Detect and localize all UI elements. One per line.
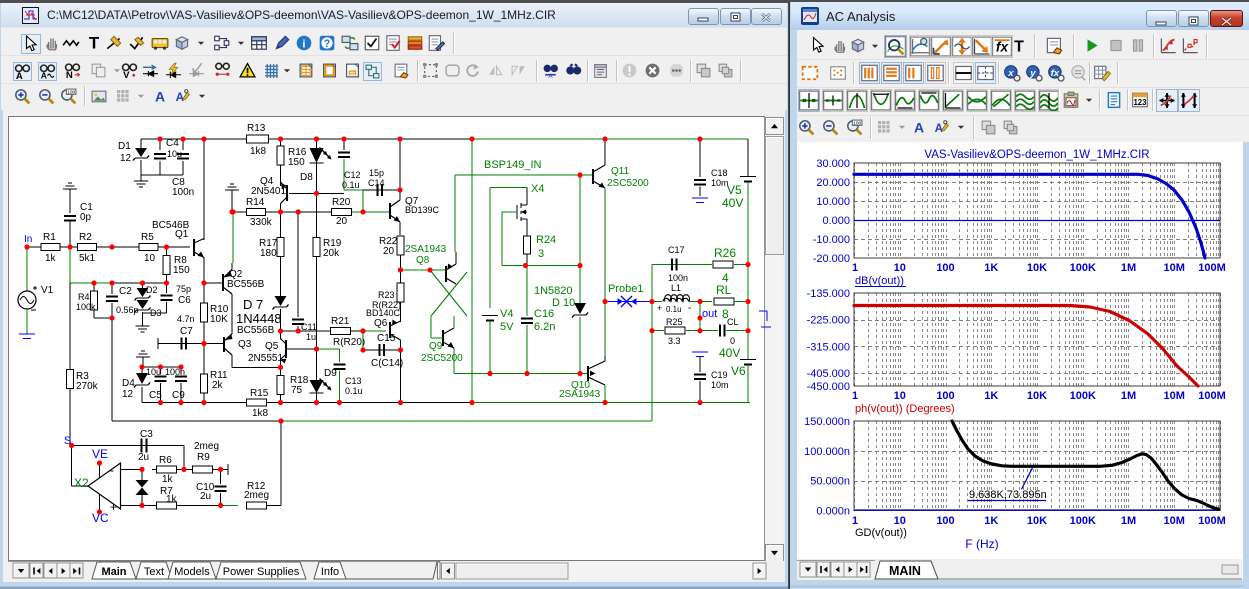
svg-text:1k: 1k	[162, 474, 174, 485]
svg-text:R24: R24	[536, 234, 556, 246]
svg-text:100: 100	[936, 390, 954, 402]
svg-text:40V: 40V	[722, 196, 743, 210]
svg-text:2u: 2u	[200, 491, 211, 502]
svg-text:D8: D8	[300, 172, 313, 183]
svg-text:A: A	[41, 70, 47, 80]
svg-text:10K: 10K	[210, 314, 228, 325]
svg-text:T: T	[89, 34, 100, 52]
svg-text:150: 150	[173, 265, 190, 276]
svg-text:9.638K,73.895n: 9.638K,73.895n	[969, 489, 1047, 501]
svg-text:D1: D1	[118, 141, 131, 152]
svg-text:R14: R14	[246, 197, 265, 208]
svg-text:C6: C6	[178, 295, 191, 306]
svg-text:?: ?	[324, 38, 331, 50]
svg-text:R15: R15	[250, 388, 269, 399]
svg-text:Info: Info	[321, 566, 339, 578]
svg-text:-405.000: -405.000	[807, 368, 850, 380]
svg-text:out: out	[702, 308, 717, 320]
svg-text:C12: C12	[344, 170, 361, 180]
svg-text:-225.000: -225.000	[807, 315, 850, 327]
svg-text:R5: R5	[141, 232, 154, 243]
svg-text:C(C14): C(C14)	[371, 358, 403, 369]
svg-text:10u: 10u	[167, 149, 182, 159]
svg-text:MAIN: MAIN	[889, 564, 921, 578]
svg-text:1k: 1k	[166, 494, 178, 505]
svg-text:10K: 10K	[1027, 515, 1047, 527]
svg-text:10: 10	[894, 262, 906, 274]
svg-text:In: In	[24, 234, 32, 245]
svg-text:X2: X2	[74, 476, 89, 490]
svg-text:Models: Models	[174, 566, 210, 578]
svg-text:-: -	[688, 303, 691, 314]
svg-text:123: 123	[1133, 98, 1147, 107]
svg-text:C4: C4	[166, 138, 179, 149]
svg-text:D4: D4	[122, 378, 135, 389]
svg-text:R21: R21	[331, 316, 350, 327]
svg-text:1N5820: 1N5820	[534, 285, 573, 297]
svg-text:330k: 330k	[250, 217, 273, 228]
svg-text:270k: 270k	[76, 381, 99, 392]
svg-text:-450.000: -450.000	[807, 381, 850, 393]
svg-text:A: A	[548, 73, 553, 79]
svg-text:10m: 10m	[711, 380, 729, 390]
svg-text:R2: R2	[79, 232, 92, 243]
svg-text:T: T	[1014, 39, 1024, 56]
svg-text:10K: 10K	[1027, 390, 1047, 402]
svg-text:6.2n: 6.2n	[534, 321, 555, 333]
svg-text:D3: D3	[150, 308, 162, 318]
svg-text:12: 12	[122, 389, 134, 400]
svg-text:C16: C16	[534, 308, 554, 320]
svg-text:N: N	[66, 70, 73, 79]
svg-text:1: 1	[852, 262, 858, 274]
svg-text:4.7n: 4.7n	[177, 314, 195, 324]
svg-text:ph(v(out)) (Degrees): ph(v(out)) (Degrees)	[855, 403, 955, 415]
svg-text:100k: 100k	[76, 302, 96, 312]
svg-text:Probe1: Probe1	[608, 283, 643, 295]
svg-text:-10.000: -10.000	[813, 234, 850, 246]
svg-text:V6: V6	[731, 364, 746, 378]
svg-text:VAS-Vasiliev&OPS-deemon_1W_1MH: VAS-Vasiliev&OPS-deemon_1W_1MHz.CIR	[924, 149, 1149, 161]
svg-text:2u: 2u	[138, 452, 149, 463]
svg-text:C17: C17	[668, 245, 685, 255]
svg-text:2k: 2k	[212, 380, 224, 391]
svg-text:D 10: D 10	[552, 297, 575, 309]
svg-text:Q8: Q8	[416, 255, 430, 266]
svg-text:dB(v(out)): dB(v(out))	[855, 275, 904, 287]
svg-text:VE: VE	[92, 447, 108, 461]
svg-text:100: 100	[936, 515, 954, 527]
svg-text:100: 100	[853, 121, 861, 127]
svg-text:-135.000: -135.000	[807, 288, 850, 300]
svg-text:R6: R6	[159, 455, 172, 466]
svg-text:1K: 1K	[984, 390, 998, 402]
svg-text:Q9: Q9	[429, 341, 443, 352]
svg-text:0.000: 0.000	[822, 215, 850, 227]
svg-text:2N5401: 2N5401	[251, 186, 286, 197]
svg-text:0.000n: 0.000n	[816, 506, 850, 518]
svg-text:-315.000: -315.000	[807, 341, 850, 353]
svg-text:R20: R20	[332, 197, 351, 208]
svg-text:i: i	[302, 39, 305, 51]
svg-text:Q5: Q5	[265, 341, 279, 352]
svg-text:50.000n: 50.000n	[810, 476, 850, 488]
svg-text:D2: D2	[146, 285, 158, 295]
svg-text:2SC5200: 2SC5200	[607, 178, 649, 189]
svg-text:F (Hz): F (Hz)	[965, 537, 998, 551]
svg-text:V5: V5	[727, 183, 742, 197]
svg-text:0: 0	[730, 336, 735, 346]
svg-text:2SC5200: 2SC5200	[421, 353, 463, 364]
svg-text:BSP149_IN: BSP149_IN	[484, 159, 542, 171]
svg-text:Q1: Q1	[175, 229, 189, 240]
svg-text:1k8: 1k8	[252, 408, 269, 419]
svg-text:0.1u: 0.1u	[342, 180, 360, 190]
svg-text:100n: 100n	[172, 187, 194, 198]
svg-text:BD140C: BD140C	[366, 308, 401, 318]
svg-text:10: 10	[144, 253, 156, 264]
svg-text:1M: 1M	[1121, 262, 1136, 274]
svg-text:10: 10	[894, 515, 906, 527]
svg-text:3.3: 3.3	[668, 336, 681, 346]
svg-text:RL: RL	[716, 283, 732, 297]
svg-text:0.1u: 0.1u	[666, 305, 682, 314]
svg-text:30.000: 30.000	[816, 158, 850, 170]
svg-text:2meg: 2meg	[194, 441, 219, 452]
svg-text:C7: C7	[180, 326, 193, 337]
svg-text:V4: V4	[500, 308, 513, 320]
svg-text:BC556B: BC556B	[237, 325, 275, 336]
svg-text:GD(v(out)): GD(v(out))	[855, 527, 907, 539]
svg-text:C18: C18	[711, 168, 728, 178]
svg-text:100M: 100M	[1198, 515, 1226, 527]
svg-text:5k1: 5k1	[79, 253, 96, 264]
svg-text:R26: R26	[714, 246, 736, 260]
svg-text:y: y	[1029, 68, 1036, 79]
svg-text:Power Supplies: Power Supplies	[223, 566, 300, 578]
svg-text:100M: 100M	[1198, 390, 1226, 402]
svg-text:A: A	[16, 71, 23, 81]
svg-text:X4: X4	[531, 183, 544, 195]
svg-text:10M: 10M	[1164, 262, 1185, 274]
svg-text:C19: C19	[711, 370, 728, 380]
svg-text:0p: 0p	[80, 212, 92, 223]
svg-text:10K: 10K	[1027, 262, 1047, 274]
svg-text:BD139C: BD139C	[405, 205, 440, 215]
svg-text:3: 3	[538, 248, 544, 260]
svg-text:15p: 15p	[369, 168, 384, 178]
svg-text:20.000: 20.000	[816, 177, 850, 189]
svg-text:10: 10	[894, 390, 906, 402]
svg-text:1M: 1M	[1121, 390, 1136, 402]
svg-text:V1: V1	[41, 285, 54, 296]
svg-text:10M: 10M	[1164, 515, 1185, 527]
svg-text:100n: 100n	[668, 273, 688, 283]
svg-text:L1: L1	[671, 283, 681, 293]
svg-text:100K: 100K	[1070, 515, 1096, 527]
svg-text:R23: R23	[378, 290, 395, 300]
svg-text:C15: C15	[377, 333, 396, 344]
svg-text:10m: 10m	[711, 178, 729, 188]
svg-text:Q3: Q3	[238, 339, 252, 350]
svg-text:100.000n: 100.000n	[804, 446, 850, 458]
svg-text:V: V	[123, 70, 130, 79]
svg-text:100K: 100K	[1070, 262, 1096, 274]
svg-text:-20.000: -20.000	[813, 253, 850, 265]
svg-text:A: A	[935, 122, 944, 135]
svg-text:x: x	[1007, 68, 1014, 79]
svg-text:20: 20	[336, 216, 348, 227]
svg-text:2meg: 2meg	[244, 490, 269, 501]
svg-text:R9: R9	[197, 452, 210, 463]
svg-text:5V: 5V	[500, 321, 514, 333]
svg-text:+: +	[110, 500, 117, 514]
svg-text:-: -	[110, 463, 114, 477]
svg-text:CL: CL	[727, 317, 739, 327]
svg-text:1M: 1M	[1121, 515, 1136, 527]
svg-text:0.1u: 0.1u	[345, 386, 363, 396]
svg-text:Main: Main	[101, 566, 126, 578]
svg-text:1k8: 1k8	[250, 146, 267, 157]
svg-text:12: 12	[120, 153, 132, 164]
svg-text:R25: R25	[666, 317, 683, 327]
svg-text:1K: 1K	[984, 262, 998, 274]
svg-text:100K: 100K	[1070, 390, 1096, 402]
svg-text:Text: Text	[144, 566, 164, 578]
svg-text:1K: 1K	[984, 515, 998, 527]
svg-text:A: A	[155, 89, 165, 105]
svg-text:10M: 10M	[1164, 390, 1185, 402]
svg-text:R4: R4	[78, 292, 90, 302]
svg-text:C5: C5	[149, 390, 162, 401]
svg-text:0.56p: 0.56p	[116, 305, 139, 315]
svg-text:150.000n: 150.000n	[804, 416, 850, 428]
svg-text:A: A	[914, 120, 924, 136]
svg-text:Q11: Q11	[611, 166, 630, 177]
svg-text:1: 1	[852, 390, 858, 402]
svg-text:100M: 100M	[1198, 262, 1226, 274]
svg-text:C9: C9	[172, 390, 185, 401]
svg-text:150: 150	[288, 157, 305, 168]
svg-text:75: 75	[291, 385, 303, 396]
svg-text:2N5551: 2N5551	[248, 353, 283, 364]
svg-text:R(R20): R(R20)	[333, 337, 365, 348]
svg-text:75p: 75p	[176, 284, 191, 294]
svg-text:C14: C14	[368, 178, 385, 188]
svg-text:1: 1	[852, 515, 858, 527]
svg-text:C13: C13	[345, 376, 362, 386]
svg-text:Q6: Q6	[374, 318, 388, 329]
svg-text:2SA1943: 2SA1943	[559, 389, 601, 400]
svg-text:100: 100	[67, 90, 75, 96]
svg-text:20k: 20k	[323, 248, 340, 259]
svg-text:A: A	[176, 91, 185, 104]
svg-text:D 7: D 7	[243, 297, 263, 312]
svg-text:1u: 1u	[306, 332, 316, 342]
svg-text:fx: fx	[996, 40, 1010, 55]
svg-text:2SA1943: 2SA1943	[405, 244, 447, 255]
svg-text:+: +	[657, 303, 662, 313]
svg-text:C2: C2	[119, 286, 132, 297]
svg-text:R1: R1	[43, 232, 56, 243]
svg-text:R13: R13	[247, 123, 266, 134]
svg-text:C3: C3	[140, 429, 153, 440]
svg-text:10.000: 10.000	[816, 196, 850, 208]
svg-text:BC556B: BC556B	[227, 279, 265, 290]
svg-text:1k: 1k	[45, 253, 57, 264]
svg-text:1N4448: 1N4448	[236, 311, 282, 326]
svg-text:40V: 40V	[719, 346, 740, 360]
svg-text:100: 100	[936, 262, 954, 274]
svg-text:20: 20	[383, 246, 395, 257]
svg-text:180: 180	[260, 248, 277, 259]
